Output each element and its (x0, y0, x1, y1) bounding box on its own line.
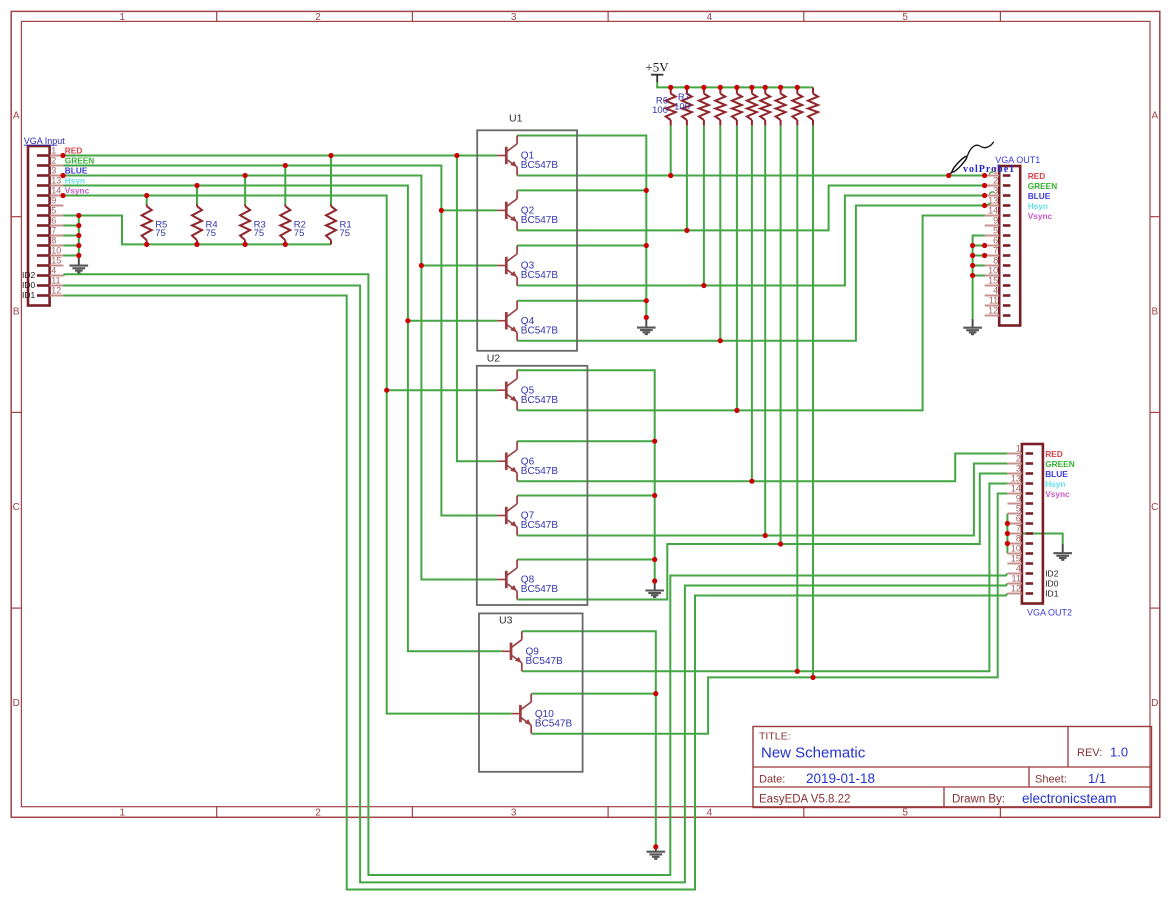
svg-text:BC547B: BC547B (521, 270, 559, 281)
svg-text:BLUE: BLUE (1028, 191, 1051, 201)
wire Q4 collector wire (517, 300, 646, 302)
svg-text:7: 7 (51, 226, 56, 236)
power flag +5V (645, 60, 669, 83)
svg-text:B: B (13, 306, 20, 317)
svg-text:11: 11 (989, 296, 998, 306)
resistor R12 100 (760, 87, 770, 125)
svg-text:ID0: ID0 (1045, 579, 1059, 589)
svg-text:12: 12 (51, 286, 61, 296)
junction P1 pin1/3/14 wire ends (60, 153, 65, 198)
svg-text:GREEN: GREEN (1028, 181, 1058, 191)
junction R2-R5 bottom bus (144, 242, 288, 247)
junction Q4 base tap (405, 318, 410, 323)
junction U3 collector bus (653, 691, 658, 849)
ground (U1 collector bus) (645, 317, 647, 327)
wire lead R14 bottom column (796, 126, 798, 672)
wire hook OUT1 pin1 (989, 172, 993, 174)
wire lead R7 bottom column (686, 126, 688, 231)
svg-text:C: C (1151, 502, 1158, 513)
wire GND bus at OUT2 pins 5-10 (1006, 514, 1008, 554)
svg-text:3: 3 (993, 186, 998, 196)
svg-text:1: 1 (51, 146, 56, 156)
wire Q3 collector wire (517, 245, 646, 247)
svg-text:ID0: ID0 (22, 280, 36, 290)
wire net Vsync row from P1 pin14, column to Q10 base (63, 196, 511, 714)
resistor R8 100 (699, 87, 709, 125)
svg-text:BLUE: BLUE (1045, 469, 1068, 479)
wire GND stub P1 pin6 (63, 225, 79, 227)
wire GND stub OUT1 pin8 (973, 265, 986, 267)
svg-text:BC547B: BC547B (521, 395, 559, 406)
wire lead R5 to net Vsync (146, 196, 148, 205)
resistor R6 100 (652, 87, 676, 125)
svg-text:11: 11 (1012, 574, 1021, 584)
junction probe attach (946, 173, 951, 178)
wire GND stub P1 pin10 (63, 255, 79, 257)
svg-text:BC547B: BC547B (521, 325, 559, 336)
wire lead R8 bottom column (703, 126, 705, 286)
resistor R7 100 (674, 87, 692, 125)
wire net BLUE row from P1 pin3, column to Q8 base (63, 176, 497, 580)
svg-text:ID1: ID1 (1045, 589, 1059, 599)
svg-text:5: 5 (1016, 504, 1021, 514)
resistor R10 100 (732, 87, 742, 125)
resistor R5 75 (142, 204, 168, 244)
svg-text:75: 75 (340, 228, 351, 239)
svg-text:RED: RED (1028, 171, 1046, 181)
ground (OUT1 pins 5-10) (972, 319, 974, 327)
svg-text:Vsync: Vsync (1045, 489, 1070, 499)
svg-text:New Schematic: New Schematic (761, 745, 866, 762)
junction OUT2 ground bus (1005, 521, 1010, 546)
junction U1 collector bus (644, 188, 649, 320)
wire net +5V bus (657, 82, 813, 88)
svg-text:2: 2 (1016, 454, 1021, 464)
svg-text:11: 11 (51, 276, 60, 286)
svg-text:1: 1 (120, 12, 126, 23)
svg-text:9: 9 (993, 216, 998, 226)
transistor Q7 BC547B (497, 496, 558, 536)
resistor R4 75 (192, 204, 218, 244)
junction Q3 base tap (419, 263, 424, 268)
wire net OUT1 Vsync : Q5 emitter to OUT1 pin14 (517, 216, 986, 411)
svg-text:9: 9 (1016, 494, 1021, 504)
transistor Q4 BC547B (497, 301, 558, 341)
svg-text:Drawn By:: Drawn By: (952, 794, 1005, 806)
IC body U1 (477, 112, 577, 350)
wire net OUT2 Hsyn : Q9 emitter to OUT2 pin13 (522, 484, 1007, 672)
connector VGA OUT2 (1007, 444, 1072, 618)
wire Q6 collector wire (517, 440, 655, 442)
wire GND stub P1 pin8 (63, 245, 79, 247)
wire net GREEN row from P1 pin2, column to Q7 base (63, 166, 497, 516)
wire lead R3 to net BLUE (244, 176, 246, 205)
svg-text:1.0: 1.0 (1110, 745, 1128, 760)
junction U2 collector bus (652, 439, 657, 584)
svg-text:12: 12 (1011, 584, 1021, 594)
svg-text:Date:: Date: (759, 774, 785, 786)
resistor R13 100 (776, 87, 786, 125)
title block (753, 727, 1152, 808)
svg-text:C: C (13, 502, 20, 513)
wire U1 collector bus to ground (517, 136, 646, 318)
svg-text:2: 2 (315, 808, 321, 819)
svg-text:U2: U2 (487, 352, 501, 364)
wire GND stub OUT1 pin7 (973, 255, 986, 257)
wire net OUT1 Hsyn : Q4 emitter to OUT1 pin13 (517, 206, 986, 341)
transistor Q10 BC547B (511, 694, 572, 734)
wire GND stub P1 pin7 (63, 235, 79, 237)
svg-text:2: 2 (51, 156, 56, 166)
svg-text:10: 10 (51, 246, 61, 256)
svg-text:3: 3 (1016, 464, 1021, 474)
wire net Hsyn branch to Q4 base (408, 320, 497, 322)
wire net Vsync branch to Q5 base (387, 389, 497, 391)
svg-text:4: 4 (1016, 564, 1021, 574)
transistor Q1 BC547B (497, 136, 558, 176)
svg-text:75: 75 (206, 228, 217, 239)
svg-text:2: 2 (315, 12, 321, 23)
wire lead R4 to net Hsyn (196, 186, 198, 205)
svg-text:2019-01-18: 2019-01-18 (806, 771, 875, 786)
wire GND stub OUT1 pin10 (973, 275, 986, 277)
svg-text:1: 1 (1016, 444, 1021, 454)
svg-text:14: 14 (51, 186, 61, 196)
junction P1 ground bus pins 5-10 (76, 213, 81, 258)
svg-text:7: 7 (1016, 524, 1021, 534)
svg-text:3: 3 (51, 166, 56, 176)
resistor R2 75 (280, 204, 306, 244)
wire net ID2 from P1 pin4 to OUT2 pin4 (63, 274, 1007, 875)
svg-text:100: 100 (674, 101, 690, 112)
svg-text:5: 5 (993, 226, 998, 236)
wire GND bus at P1 pins 5-10 (78, 216, 80, 256)
wire net ID0 from P1 pin11 to OUT2 pin11 (63, 286, 1007, 883)
resistor R9 100 (715, 87, 725, 125)
wire Q2 collector wire (517, 189, 646, 191)
svg-text:U1: U1 (509, 112, 523, 124)
svg-text:7: 7 (993, 246, 998, 256)
svg-text:2: 2 (993, 176, 998, 186)
svg-text:6: 6 (993, 236, 998, 246)
connector VGA OUT1 (985, 155, 1041, 326)
junction Q5 base tap (384, 388, 389, 393)
svg-text:Vsync: Vsync (65, 185, 90, 195)
svg-text:VGA Input: VGA Input (24, 136, 66, 146)
svg-text:5: 5 (902, 12, 908, 23)
svg-text:RED: RED (65, 145, 83, 155)
svg-text:14: 14 (1011, 484, 1021, 494)
svg-text:5: 5 (902, 808, 908, 819)
wire net OUT2 GREEN : Q7 emitter to OUT2 pin2 (517, 464, 1007, 536)
svg-text:10: 10 (988, 266, 998, 276)
svg-text:1/1: 1/1 (1088, 771, 1106, 786)
junction pull-up bottoms R6-R15 (668, 173, 816, 680)
svg-text:BC547B: BC547B (521, 215, 559, 226)
svg-text:3: 3 (511, 808, 517, 819)
wire GND stub OUT1 pin6 (973, 245, 986, 247)
svg-text:REV:: REV: (1077, 747, 1102, 759)
svg-text:BC547B: BC547B (521, 466, 559, 477)
svg-text:+5V: +5V (645, 60, 669, 75)
junction OUT1 ground bus (970, 243, 975, 278)
svg-text:A: A (13, 111, 20, 122)
connector P1 VGA Input (22, 136, 65, 306)
junction R1-R5 top taps (144, 153, 334, 198)
resistor R14 100 (792, 87, 802, 125)
svg-text:electronicsteam: electronicsteam (1022, 791, 1117, 806)
resistor R15 100 (808, 87, 818, 125)
svg-text:4: 4 (707, 12, 713, 23)
svg-text:15: 15 (988, 276, 998, 286)
junction Q2 base tap (439, 208, 444, 213)
wire GND net from P1 pin5 to resistor bottom bus (63, 216, 331, 245)
junction RED column tap (454, 153, 459, 158)
svg-text:100: 100 (652, 105, 668, 116)
svg-text:A: A (1151, 111, 1158, 122)
wire lead R9 bottom column (719, 126, 721, 341)
svg-text:8: 8 (993, 256, 998, 266)
svg-text:15: 15 (1011, 554, 1021, 564)
wire net OUT2 RED : Q6 emitter to OUT2 pin1 (517, 454, 1007, 482)
svg-text:5: 5 (51, 206, 56, 216)
svg-text:75: 75 (155, 228, 166, 239)
wire Q7 collector wire (517, 495, 655, 497)
wire GND bus at OUT1 pins 5-10 (973, 236, 986, 319)
svg-text:1: 1 (120, 808, 126, 819)
svg-text:B: B (1151, 306, 1158, 317)
wire Q10 collector wire (532, 693, 656, 695)
svg-text:D: D (13, 698, 20, 709)
ground (OUT2 pin7) (1062, 544, 1064, 553)
svg-text:BC547B: BC547B (521, 520, 559, 531)
ground (P1 pins 5-10) (78, 256, 80, 265)
svg-text:D: D (1151, 698, 1158, 709)
svg-text:6: 6 (51, 216, 56, 226)
wire hook OUT1 pin13 (987, 204, 991, 206)
svg-text:Hsyn: Hsyn (1028, 201, 1048, 211)
ground (U2 collector bus) (654, 581, 656, 590)
junction OUT1 pin wire ends (982, 173, 987, 258)
svg-text:BC547B: BC547B (521, 584, 559, 595)
svg-text:ID2: ID2 (1045, 569, 1059, 579)
svg-text:6: 6 (1016, 514, 1021, 524)
ground (U3 collector bus, bottom) (655, 844, 657, 851)
transistor Q9 BC547B (502, 631, 563, 671)
svg-text:RED: RED (1045, 449, 1063, 459)
svg-text:BC547B: BC547B (535, 718, 573, 729)
wire net OUT1 RED : Q1 emitter to OUT1 pin1 (517, 175, 986, 177)
svg-text:Sheet:: Sheet: (1035, 774, 1067, 786)
transistor Q3 BC547B (497, 246, 558, 286)
transistor Q8 BC547B (497, 560, 558, 600)
wire lead R2 to net GREEN (284, 166, 286, 205)
wire hook OUT1 pin3 (989, 192, 993, 194)
svg-text:GREEN: GREEN (65, 155, 95, 165)
wire net RED column to Q6 base (457, 156, 497, 462)
wire lead R15 bottom column (812, 126, 814, 678)
svg-text:Hsyn: Hsyn (1045, 479, 1065, 489)
wire lead R13 bottom column (780, 126, 782, 544)
svg-text:BLUE: BLUE (65, 165, 88, 175)
svg-text:TITLE:: TITLE: (759, 731, 791, 743)
probe volProbe1 (949, 142, 1015, 176)
wire Q8 collector wire (517, 559, 655, 561)
svg-text:4: 4 (707, 808, 713, 819)
svg-text:8: 8 (51, 236, 56, 246)
resistor R3 75 (240, 204, 266, 244)
wire net ID1 from P1 pin12 to OUT2 pin12 (63, 296, 1007, 890)
svg-text:14: 14 (988, 206, 998, 216)
wire net Hsyn row from P1 pin13, column to Q9 base (63, 186, 502, 652)
svg-text:BC547B: BC547B (521, 160, 559, 171)
IC body U3 (479, 613, 583, 771)
wire net OUT1 BLUE : Q3 emitter to OUT1 pin3 (517, 196, 986, 286)
wire lead R11 bottom column (751, 126, 753, 482)
wire lead R10 bottom column (736, 126, 738, 411)
junction +5V bus resistor taps (668, 85, 800, 90)
svg-text:Vsync: Vsync (1028, 211, 1053, 221)
svg-text:EasyEDA V5.8.22: EasyEDA V5.8.22 (759, 794, 850, 806)
svg-text:GREEN: GREEN (1045, 459, 1075, 469)
svg-text:15: 15 (51, 256, 61, 266)
svg-text:8: 8 (1016, 534, 1021, 544)
svg-text:U3: U3 (499, 614, 513, 626)
wire U3 collector bus to bottom ground (522, 631, 656, 844)
svg-text:VGA OUT2: VGA OUT2 (1027, 608, 1072, 618)
svg-text:4: 4 (51, 266, 56, 276)
wire net GREEN branch to Q2 base (441, 209, 497, 211)
transistor Q5 BC547B (497, 370, 558, 410)
wire net OUT2 BLUE : Q8 emitter to OUT2 pin3 (517, 474, 1007, 600)
wire net OUT2 Vsync : Q10 emitter to OUT2 pin14 (532, 494, 1008, 734)
transistor Q6 BC547B (497, 441, 558, 481)
wire lead R6 bottom column (670, 126, 672, 176)
svg-text:75: 75 (254, 228, 265, 239)
svg-text:BC547B: BC547B (526, 656, 564, 667)
svg-text:4: 4 (993, 286, 998, 296)
resistor R11 100 (747, 87, 757, 125)
svg-text:75: 75 (294, 228, 305, 239)
transistor Q2 BC547B (497, 190, 558, 230)
wire GND wire OUT2 pin7 to right ground (1007, 534, 1062, 545)
svg-text:9: 9 (51, 196, 56, 206)
svg-text:ID1: ID1 (22, 290, 36, 300)
svg-text:13: 13 (1011, 474, 1021, 484)
svg-text:Hsyn: Hsyn (65, 175, 85, 185)
resistor R1 75 (326, 204, 352, 244)
svg-text:ID2: ID2 (22, 270, 36, 280)
wire lead R1 to net RED (330, 156, 332, 205)
wire U2 collector bus to ground (517, 370, 655, 581)
wire net BLUE branch to Q3 base (421, 265, 497, 267)
wire net RED row from P1 pin1 to Q1 base (63, 155, 497, 157)
IC body U2 (477, 352, 588, 605)
wire net OUT1 GREEN : Q2 emitter to OUT1 pin2 (517, 186, 986, 231)
svg-text:10: 10 (1011, 544, 1021, 554)
wire lead R12 bottom column (764, 126, 766, 536)
svg-text:13: 13 (51, 176, 61, 186)
svg-text:12: 12 (988, 306, 998, 316)
svg-text:3: 3 (511, 12, 517, 23)
